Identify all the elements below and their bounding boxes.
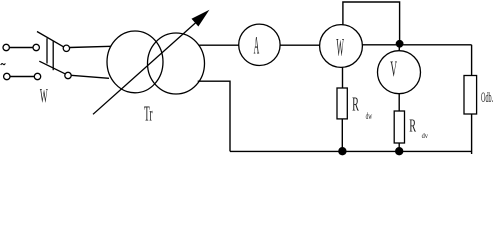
wire junction to voltmeter	[398, 44, 400, 51]
switch W pole 1 terminal	[3, 44, 9, 50]
voltmeter V	[378, 51, 421, 94]
node junction Rdv bottom	[395, 147, 403, 155]
svg-text:dw: dw	[366, 112, 373, 122]
wire bottom-left supply to switch contact	[10, 76, 34, 78]
switch W pole 1 right contact	[63, 45, 69, 51]
switch W coupler bar 1	[46, 38, 48, 63]
svg-text:dv: dv	[422, 131, 429, 140]
resistor Rdw	[337, 88, 347, 119]
wire resistor Rdv to bottom rail	[398, 143, 400, 151]
wire bottom rail	[230, 150, 472, 152]
svg-text:Tr: Tr	[144, 102, 153, 126]
wire resistor Rdw to bottom rail	[341, 119, 343, 151]
wire down to load Odb	[471, 45, 473, 76]
wire wattmeter voltage loop	[343, 2, 400, 44]
svg-text:W: W	[40, 85, 48, 107]
ammeter A	[239, 24, 280, 65]
transformer Tr primary winding	[107, 31, 163, 93]
node junction above voltmeter	[396, 40, 404, 48]
wire load Odb to bottom rail	[471, 114, 473, 154]
transformer Tr secondary winding	[148, 33, 205, 94]
load resistor Odb	[464, 76, 477, 115]
switch W pole 1 left contact	[33, 44, 39, 50]
svg-text:W: W	[336, 35, 344, 62]
wattmeter W	[320, 25, 363, 68]
wire transformer bottom out to corner	[198, 81, 230, 151]
transformer Tr arrow head	[192, 11, 208, 26]
wire switch to transformer bottom	[71, 75, 109, 78]
svg-text:A: A	[254, 33, 260, 60]
svg-text:R: R	[352, 95, 359, 116]
svg-text:V: V	[390, 56, 397, 81]
switch W pole 2 left contact	[34, 73, 40, 79]
switch W pole 1 blade	[37, 32, 64, 47]
switch W pole 2 blade	[39, 61, 65, 74]
wire switch to transformer top	[70, 46, 111, 47]
wire wattmeter to load top	[362, 44, 471, 46]
svg-text:R: R	[409, 116, 416, 136]
switch W coupler bar 2	[52, 41, 54, 70]
wire wattmeter to resistor Rdw	[342, 67, 344, 88]
resistor Rdv	[394, 111, 404, 143]
switch W pole 2 right contact	[65, 72, 71, 78]
transformer Tr variable arrow shaft	[93, 18, 202, 115]
switch W pole 2 terminal	[4, 73, 10, 79]
wire top-left supply to switch contact	[10, 47, 34, 49]
node junction Rdw bottom	[338, 147, 346, 155]
svg-text:Odb.: Odb.	[481, 90, 493, 106]
AC source tilde	[1, 63, 6, 65]
wire transformer to ammeter	[199, 44, 239, 46]
wire ammeter to wattmeter	[280, 44, 320, 46]
wire voltmeter to resistor Rdv	[398, 94, 400, 111]
